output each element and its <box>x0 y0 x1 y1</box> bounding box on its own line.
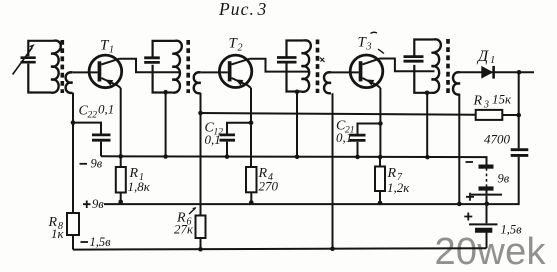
transistor T2 collector line <box>232 59 250 65</box>
transistor T3 emitter arrow <box>366 79 374 85</box>
label R8 1к <box>48 215 65 241</box>
wire 4700 down to +9v bus corner <box>104 157 519 204</box>
label R3 15к <box>473 92 513 111</box>
node tank4 bottom <box>425 91 430 96</box>
svg-text:9в: 9в <box>91 157 103 171</box>
node battery on +9v bus <box>485 201 490 206</box>
node tank4 wire on -9v bus <box>425 155 430 160</box>
transistor T1 emitter arrow <box>105 80 113 86</box>
transistor T2 emitter line <box>232 78 252 88</box>
wire detector column down <box>518 72 520 148</box>
wire detector line with diode <box>460 71 534 73</box>
capacitor C3 plates <box>277 58 297 63</box>
-1,5v bottom rail <box>73 248 487 249</box>
label T1 <box>100 38 114 56</box>
svg-text:270: 270 <box>259 179 279 194</box>
variable capacitor C1 plates <box>21 58 36 63</box>
node AGC bus start <box>198 111 203 116</box>
node R7 bottom on +9v bus <box>378 201 383 206</box>
svg-text:1,5в: 1,5в <box>90 235 112 249</box>
core of transformer L3 (dashed) <box>316 40 320 94</box>
svg-text:2: 2 <box>238 43 243 54</box>
label D1 <box>476 48 495 66</box>
capacitor C22 plates <box>92 135 111 140</box>
svg-text:3: 3 <box>366 42 372 53</box>
capacitor C2 plates <box>144 58 160 63</box>
diode D1 cathode bar <box>492 66 495 79</box>
variable capacitor arrow <box>13 48 33 75</box>
core of transformer L4 (dashed) <box>446 39 450 94</box>
svg-text:20wek: 20wek <box>435 231 547 272</box>
label -1,5в <box>81 241 89 243</box>
battery B1 plus sign <box>466 193 474 201</box>
coil L2 secondary winding <box>194 72 201 93</box>
wire secondary bottom down <box>72 93 74 213</box>
wire C22 to -9v bus <box>100 142 102 157</box>
node R3 right junction <box>516 113 521 118</box>
coil L1 secondary winding <box>66 72 73 93</box>
svg-text:1: 1 <box>109 45 114 56</box>
node diode output <box>517 70 522 75</box>
core of transformer L2 (dashed) <box>186 40 190 93</box>
wire secondary bottom down to +9v bus <box>458 94 460 204</box>
coil L4 primary winding <box>432 39 441 93</box>
svg-text:4700: 4700 <box>484 132 511 147</box>
node tank3 secondary on -1,5v rail <box>330 246 335 251</box>
wire secondary top to T3 base <box>331 71 359 73</box>
core of transformer L1 (dashed) <box>60 40 64 93</box>
resistor R6 <box>196 216 206 239</box>
svg-text:R: R <box>387 166 397 181</box>
battery B2 1,5v plates <box>486 204 488 224</box>
label C21 0,1 <box>336 119 355 146</box>
node tank2 wire on -9v bus <box>163 154 168 159</box>
svg-text:3: 3 <box>483 100 489 111</box>
resistor R4 <box>246 167 257 192</box>
node C21 junction on emitter line <box>378 121 383 126</box>
coil L1 primary winding <box>51 41 61 93</box>
label R6 27к with arrow <box>174 211 194 237</box>
svg-text:1: 1 <box>490 55 495 66</box>
wire tank4 bottom to -9v bus <box>426 93 428 157</box>
capacitor C21 <box>358 124 381 134</box>
wire secondary top to T2 base <box>201 71 228 73</box>
transistor T3 circle <box>350 55 383 88</box>
node tank4 secondary on +9v bus <box>457 202 462 207</box>
svg-text:27к: 27к <box>174 222 194 237</box>
artifact mark near L3 core <box>320 58 325 63</box>
svg-text:3: 3 <box>257 0 267 19</box>
svg-text:1,8к: 1,8к <box>128 179 151 194</box>
node tank3 bottom <box>295 90 300 95</box>
label T2 <box>229 36 243 54</box>
resistor R8 <box>67 213 79 235</box>
transistor T2 emitter arrow <box>235 79 243 85</box>
-9v bus <box>101 156 487 165</box>
capacitor C12 <box>227 123 251 134</box>
svg-text:9в: 9в <box>498 172 510 186</box>
label T3 with artifact marks <box>358 35 372 53</box>
label +9в <box>83 201 91 209</box>
wire T3 collector to tank 4 <box>380 59 435 72</box>
wire secondary bottom down through buses to R6 <box>200 93 202 216</box>
wire T3 emitter down to -9v bus <box>379 88 381 157</box>
transistor T2 base bar <box>228 61 232 81</box>
node R6 bottom on -1,5v rail <box>198 247 203 252</box>
tank L1 loop (antenna tuned circuit) <box>28 41 53 93</box>
svg-text:R: R <box>473 94 483 109</box>
coil L4 secondary winding <box>453 72 460 94</box>
node C12 on -9v bus <box>225 154 230 159</box>
tank L3 loop <box>287 41 304 92</box>
resistor R3 <box>476 110 503 120</box>
transistor T1 emitter line <box>101 78 120 88</box>
transistor T3 collector line <box>362 59 380 65</box>
transistor T1 circle <box>89 55 122 88</box>
coil L3 primary winding <box>302 40 311 92</box>
node T1 emitter / -9v / R1 <box>118 154 123 159</box>
label R7 1,2к <box>387 166 411 195</box>
battery B1 9v plates <box>479 165 494 169</box>
wire tank3 bottom to -9v bus <box>296 92 298 157</box>
svg-text:1,2к: 1,2к <box>387 180 410 195</box>
coil L3 secondary winding <box>324 72 331 93</box>
node C12 junction on emitter line <box>249 121 254 126</box>
node R1 bottom on +9v bus <box>118 200 123 205</box>
label R4 270 <box>258 166 279 194</box>
wire secondary top to T1 base <box>73 71 98 73</box>
svg-text:0,1: 0,1 <box>205 132 221 147</box>
node tank2 bottom <box>163 90 168 95</box>
capacitor C4 plates <box>404 57 424 62</box>
transistor T1 collector line <box>101 59 119 65</box>
transistor T1 base bar <box>98 61 102 81</box>
svg-text:0,1: 0,1 <box>336 130 352 145</box>
wire T1 emitter down to -9v bus <box>120 88 122 156</box>
svg-text:1,5в: 1,5в <box>501 223 523 237</box>
wire to C22 <box>73 123 101 134</box>
svg-text:0,1: 0,1 <box>98 102 114 117</box>
resistor R1 <box>120 156 122 167</box>
coil L2 primary winding <box>172 41 182 93</box>
label R1 1,8к <box>128 166 151 194</box>
label C12 0,1 <box>205 121 224 148</box>
svg-text:Рис.: Рис. <box>218 0 255 19</box>
label C22 0,1 <box>79 102 115 121</box>
resistor R7 <box>375 167 385 192</box>
AGC bus wire to R3 <box>201 113 476 115</box>
node R4 bottom on +9v bus <box>249 200 254 205</box>
transistor T3 base bar <box>359 61 363 81</box>
diode D1 triangle <box>481 66 493 79</box>
capacitor 4700 plates <box>511 150 529 156</box>
tank L4 loop <box>414 40 433 93</box>
tank L2 loop <box>153 41 175 93</box>
wire T1 collector to tank 2 <box>120 59 180 73</box>
svg-text:9в: 9в <box>92 197 104 211</box>
wire T2 emitter down to R4 <box>250 88 252 167</box>
battery B1 9v minus sign <box>466 161 474 163</box>
node C21 on -9v bus <box>355 155 360 160</box>
wire tank2 bottom to -9v bus <box>165 93 167 157</box>
transistor T2 circle <box>219 55 251 87</box>
svg-text:15к: 15к <box>492 92 512 107</box>
transistor T3 emitter line <box>362 78 380 88</box>
svg-text:1к: 1к <box>51 226 65 241</box>
node T3 emitter / -9v / R7 <box>378 155 383 160</box>
node tank3 wire on -9v bus <box>295 155 300 160</box>
label -9в <box>80 163 88 165</box>
svg-text:22: 22 <box>88 111 98 121</box>
svg-text:Д: Д <box>476 48 489 65</box>
wire secondary bottom down to -1,5v rail <box>332 93 334 249</box>
node base line junction <box>71 120 76 125</box>
battery B2 plus sign <box>464 213 472 221</box>
wire T2 collector to tank 3 <box>250 59 309 72</box>
